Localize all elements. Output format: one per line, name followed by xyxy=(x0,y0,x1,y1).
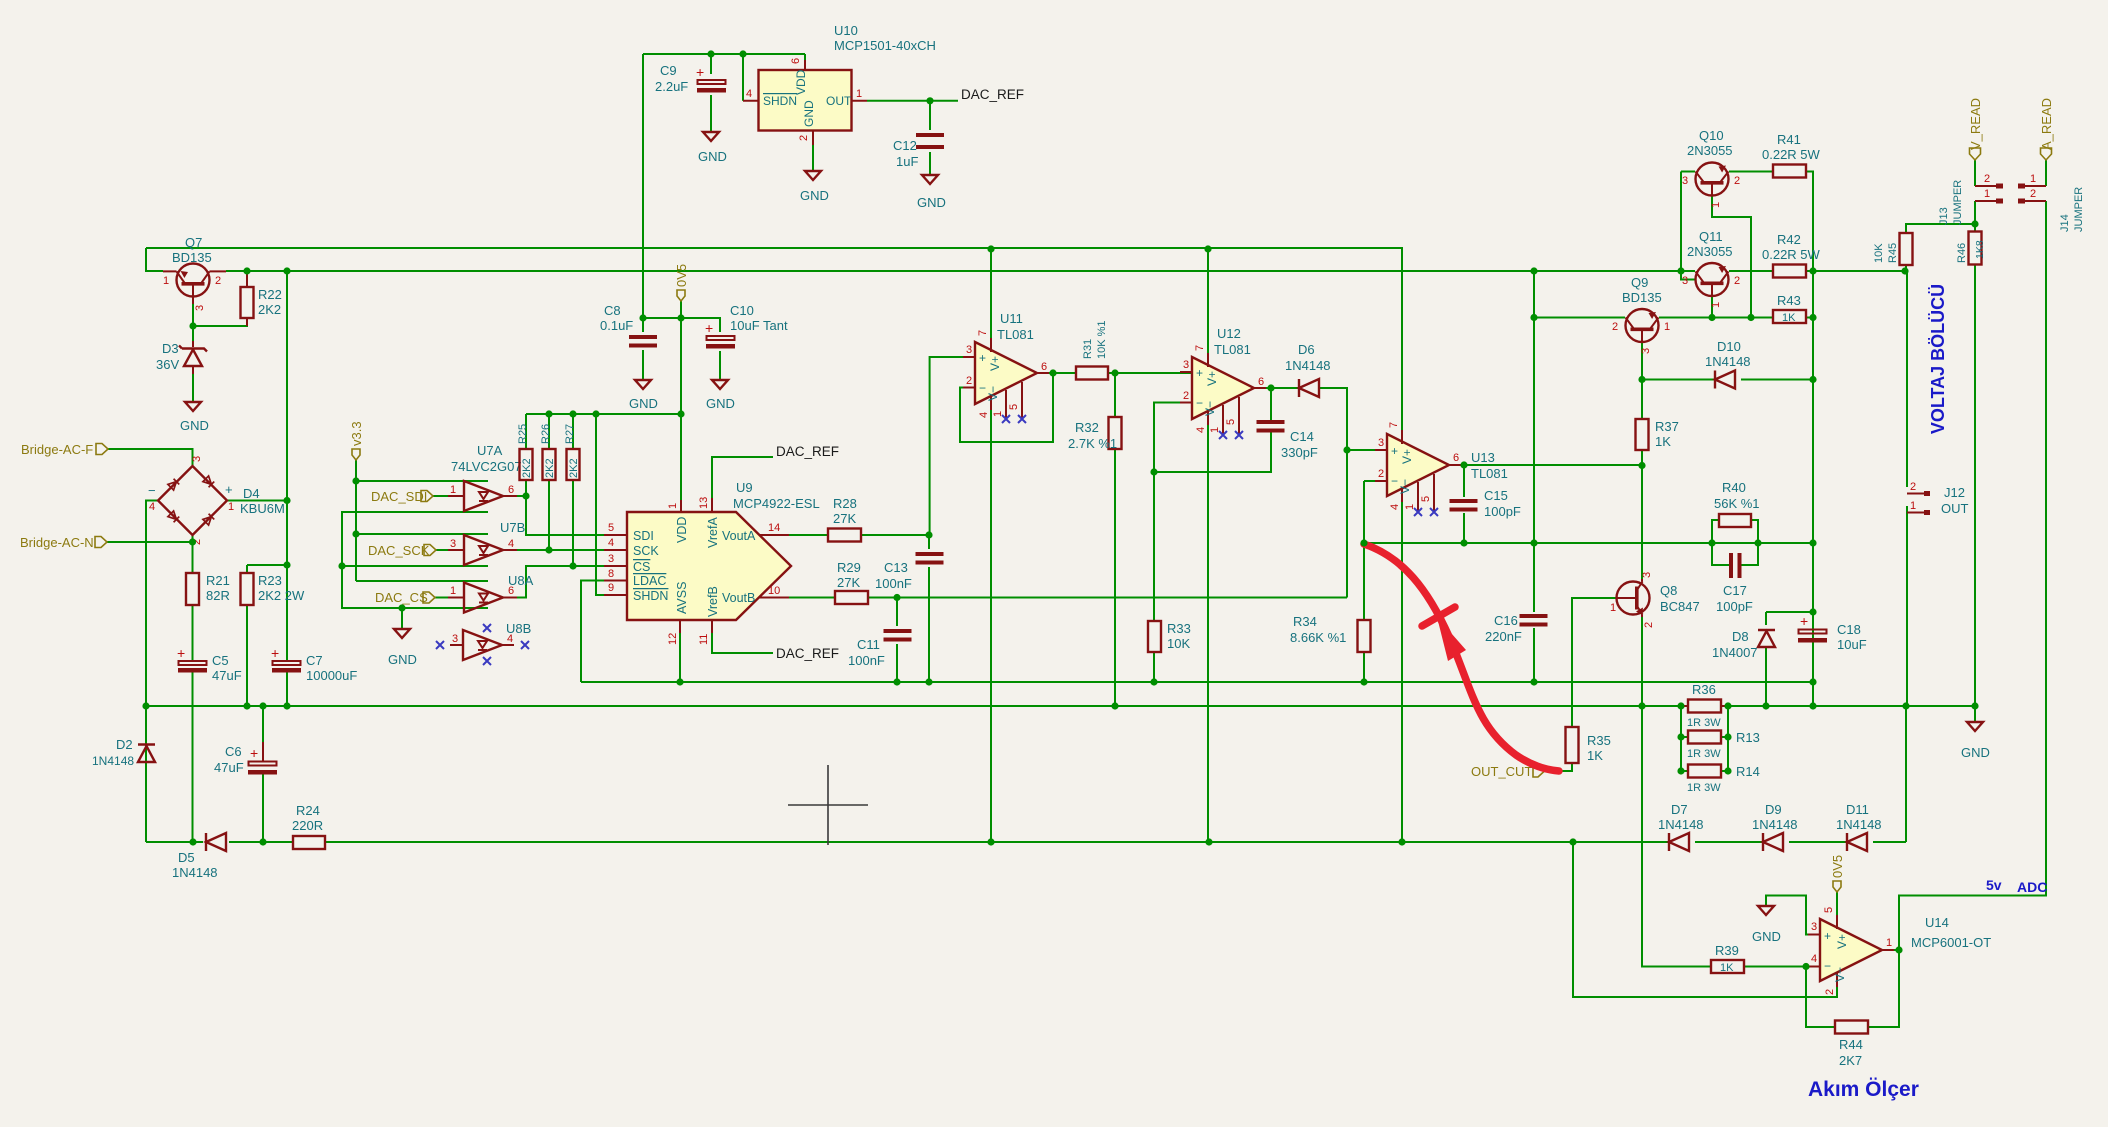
wire U11 pin4 down xyxy=(990,410,992,842)
svg-text:0V5: 0V5 xyxy=(674,264,689,287)
resistor R41 0.22R 5W xyxy=(1762,132,1821,178)
transistor Q7 xyxy=(163,235,226,311)
wire Q10 emitter jog xyxy=(1712,196,1751,318)
svg-text:6: 6 xyxy=(508,585,514,597)
wire U7B vcc rail xyxy=(356,533,488,535)
svg-text:1R 3W: 1R 3W xyxy=(1687,782,1721,794)
svg-text:+: + xyxy=(696,64,704,80)
ground GND (U10 pin2) xyxy=(800,171,829,203)
svg-text:R32: R32 xyxy=(1075,420,1099,435)
svg-text:V_READ: V_READ xyxy=(1968,98,1983,150)
svg-text:6: 6 xyxy=(790,58,802,64)
resistor R46 1K8 xyxy=(1956,232,1986,265)
svg-text:27K: 27K xyxy=(837,575,860,590)
capacitor C11 100nF xyxy=(848,629,912,668)
svg-text:GND: GND xyxy=(388,652,417,667)
ground GND (U14) xyxy=(1752,906,1781,944)
svg-text:+: + xyxy=(271,645,279,661)
wire U11 minus feedback xyxy=(960,373,1053,442)
svg-text:27K: 27K xyxy=(833,511,856,526)
svg-text:1R 3W: 1R 3W xyxy=(1687,717,1721,729)
wire Q9 collector line xyxy=(1659,317,1773,319)
svg-text:8: 8 xyxy=(608,568,614,580)
svg-text:100nF: 100nF xyxy=(848,653,885,668)
svg-text:U11: U11 xyxy=(1000,311,1023,326)
resistor R45 10K xyxy=(1873,233,1913,265)
svg-text:ADC: ADC xyxy=(2017,879,2047,895)
svg-text:−: − xyxy=(1824,959,1831,973)
wire U10 shdn pin drop xyxy=(742,54,744,101)
wire C15 column xyxy=(1463,465,1465,543)
svg-text:C9: C9 xyxy=(660,63,677,78)
wire bridge plus to x287 xyxy=(227,500,287,502)
svg-text:R29: R29 xyxy=(837,560,861,575)
svg-text:VoutB: VoutB xyxy=(722,591,755,605)
svg-text:Q9: Q9 xyxy=(1631,275,1648,290)
wire V_READ stem xyxy=(1974,160,1976,186)
ground GND (C10) xyxy=(706,380,735,411)
svg-text:C13: C13 xyxy=(884,560,908,575)
wire U14 out stub xyxy=(1878,949,1899,951)
svg-text:R36: R36 xyxy=(1692,682,1716,697)
wire V+ top rail y248 xyxy=(146,247,1403,249)
wire Bridge-AC-N xyxy=(107,535,193,573)
svg-text:1: 1 xyxy=(1886,937,1892,949)
svg-text:100nF: 100nF xyxy=(875,576,912,591)
svg-text:3: 3 xyxy=(1641,572,1653,578)
wire Q9 base line xyxy=(1534,317,1625,319)
wire 0V5 rail y318 xyxy=(643,318,720,332)
wire J13 pin1 to R46 xyxy=(1974,201,1976,231)
wire Q8 collector xyxy=(1641,466,1643,580)
svg-text:82R: 82R xyxy=(206,588,230,603)
op-amp U12 TL081 xyxy=(1180,326,1266,439)
svg-text:R14: R14 xyxy=(1736,764,1760,779)
wire R28 to C13 node xyxy=(861,534,929,536)
wire C18 column xyxy=(1812,612,1814,682)
svg-text:100pF: 100pF xyxy=(1716,599,1753,614)
wire SHDN net xyxy=(596,414,604,595)
svg-text:VoutA: VoutA xyxy=(722,529,756,543)
resistor R39 1K xyxy=(1711,943,1744,974)
svg-text:1: 1 xyxy=(1404,504,1416,510)
svg-text:R28: R28 xyxy=(833,496,857,511)
svg-text:4: 4 xyxy=(149,501,155,513)
svg-text:4: 4 xyxy=(746,88,752,100)
svg-text:C6: C6 xyxy=(225,744,242,759)
buffer U7B xyxy=(448,520,525,565)
wire U13 out node xyxy=(1445,464,1464,466)
svg-text:3: 3 xyxy=(194,305,206,311)
svg-text:8.66K %1: 8.66K %1 xyxy=(1290,630,1346,645)
svg-text:3: 3 xyxy=(191,456,203,462)
wire R25 top stub xyxy=(525,414,527,449)
svg-text:Q8: Q8 xyxy=(1660,583,1677,598)
wire VoutA to R28 xyxy=(789,534,828,536)
svg-text:R21: R21 xyxy=(206,573,230,588)
wire U11 pin7 xyxy=(990,249,992,338)
svg-text:1N4148: 1N4148 xyxy=(1836,817,1882,832)
resistor R44 2K7 xyxy=(1835,1021,1868,1069)
svg-text:5: 5 xyxy=(1823,907,1835,913)
buffer U8A xyxy=(448,573,534,613)
svg-text:2: 2 xyxy=(1734,275,1740,287)
svg-text:2K2 2W: 2K2 2W xyxy=(258,588,305,603)
svg-text:D3: D3 xyxy=(162,341,179,356)
svg-text:7: 7 xyxy=(977,330,989,336)
resistor R13 1R 3W xyxy=(1687,730,1760,760)
wire U14 pin5 stub xyxy=(1836,892,1838,917)
power symbol 0V5 (U14) xyxy=(1830,855,1845,892)
svg-text:TL081: TL081 xyxy=(1471,466,1508,481)
resistor R33 10K xyxy=(1148,621,1191,652)
svg-text:C14: C14 xyxy=(1290,429,1314,444)
svg-text:R34: R34 xyxy=(1293,614,1317,629)
svg-text:A_READ: A_READ xyxy=(2039,98,2054,150)
diode D11 1N4148 xyxy=(1836,802,1882,851)
zener diode D3 36V xyxy=(156,326,207,402)
resistor R22 2K2 xyxy=(241,271,282,326)
wire Q7 emitter node xyxy=(193,297,247,341)
svg-text:R37: R37 xyxy=(1655,419,1679,434)
svg-text:D7: D7 xyxy=(1671,802,1688,817)
buffer U7A 74LVC2G07 xyxy=(448,443,522,511)
resistor R23 2K2 2W xyxy=(241,573,305,605)
svg-text:+: + xyxy=(1824,929,1831,943)
wire R32 bottom xyxy=(1114,449,1116,706)
svg-text:BD135: BD135 xyxy=(1622,290,1662,305)
svg-text:GND: GND xyxy=(1752,929,1781,944)
svg-text:3: 3 xyxy=(1640,348,1652,354)
svg-text:C12: C12 xyxy=(893,138,917,153)
wire U14 gnd hook xyxy=(1766,896,1820,935)
wire U13 pin4 down xyxy=(1401,500,1403,842)
svg-text:SCK: SCK xyxy=(633,544,659,558)
svg-text:220nF: 220nF xyxy=(1485,629,1522,644)
svg-text:U13: U13 xyxy=(1471,450,1495,465)
resistor R26 2K2 xyxy=(540,424,556,480)
svg-text:GND: GND xyxy=(802,100,816,127)
resistor R35 1K xyxy=(1566,727,1611,763)
hierarchical label Bridge-AC-F xyxy=(21,442,108,457)
svg-text:SHDN: SHDN xyxy=(633,589,668,603)
svg-text:AVSS: AVSS xyxy=(675,582,689,614)
svg-text:D6: D6 xyxy=(1298,342,1315,357)
svg-text:TL081: TL081 xyxy=(997,327,1034,342)
svg-text:+: + xyxy=(979,351,986,365)
wire Q10 base drop xyxy=(1681,172,1695,272)
svg-text:2: 2 xyxy=(966,375,972,387)
svg-text:2: 2 xyxy=(1984,173,1990,185)
DAC U9 MCP4922-E5L xyxy=(604,480,820,645)
svg-text:−: − xyxy=(979,381,986,395)
svg-text:2K2: 2K2 xyxy=(258,302,281,317)
wire R40 C17 loop right xyxy=(1741,520,1758,565)
svg-text:4: 4 xyxy=(608,537,614,549)
svg-text:R40: R40 xyxy=(1722,480,1746,495)
hierarchical label DAC_SCK xyxy=(368,543,436,558)
svg-text:4: 4 xyxy=(978,412,990,418)
svg-text:+: + xyxy=(250,745,258,761)
svg-text:DAC_SCK: DAC_SCK xyxy=(368,543,430,558)
svg-text:C7: C7 xyxy=(306,653,323,668)
svg-text:R23: R23 xyxy=(258,573,282,588)
resistor R28 27K xyxy=(828,496,861,542)
svg-text:4: 4 xyxy=(1811,953,1817,965)
wire C13 column xyxy=(928,535,930,682)
capacitor C15 100pF xyxy=(1450,488,1521,519)
svg-text:R41: R41 xyxy=(1777,132,1801,147)
svg-text:J12: J12 xyxy=(1944,485,1965,500)
svg-text:GND: GND xyxy=(1961,745,1990,760)
svg-text:Akım Ölçer: Akım Ölçer xyxy=(1808,1078,1919,1101)
wire U10 top rail xyxy=(643,53,805,55)
ground GND (C8) xyxy=(629,380,658,411)
svg-text:6: 6 xyxy=(508,484,514,496)
resistor R24 220R xyxy=(292,803,325,849)
power symbol v3.3 xyxy=(349,421,364,460)
svg-text:C10: C10 xyxy=(730,303,754,318)
wire DAC_REF to VrefA xyxy=(712,457,773,498)
svg-text:LDAC: LDAC xyxy=(633,574,666,588)
jumper J13 xyxy=(1938,173,2046,225)
wire C6 bottom xyxy=(262,706,264,842)
svg-text:R43: R43 xyxy=(1777,293,1801,308)
svg-text:10K: 10K xyxy=(1873,243,1885,263)
wire U8A out to CS xyxy=(517,566,604,598)
svg-text:KBU6M: KBU6M xyxy=(240,501,285,516)
svg-text:U12: U12 xyxy=(1217,326,1241,341)
svg-text:U9: U9 xyxy=(736,480,753,495)
wire VoutB to R29 xyxy=(789,597,835,599)
capacitor C12 1uF xyxy=(893,133,944,169)
resistor R14 1R 3W xyxy=(1687,764,1760,794)
wire pullup rail y414 xyxy=(526,413,681,415)
svg-text:2: 2 xyxy=(1734,175,1740,187)
wire R23 bottom xyxy=(246,605,248,706)
capacitor C16 220nF xyxy=(1485,613,1548,644)
wire Q8 base to R35 xyxy=(1572,598,1617,727)
svg-text:MCP1501-40xCH: MCP1501-40xCH xyxy=(834,38,936,53)
svg-text:BD135: BD135 xyxy=(172,250,212,265)
resistor R43 1K xyxy=(1773,293,1806,324)
svg-text:D4: D4 xyxy=(243,486,260,501)
svg-text:10000uF: 10000uF xyxy=(306,668,357,683)
resistor R40 56K %1 xyxy=(1714,480,1760,527)
wire R31 right node xyxy=(1108,373,1192,417)
resistor R21 82R xyxy=(186,573,230,605)
voltage reference U10 MCP1501-40xCH xyxy=(743,23,936,145)
svg-text:2.7K %1: 2.7K %1 xyxy=(1068,436,1117,451)
svg-text:1R 3W: 1R 3W xyxy=(1687,748,1721,760)
svg-text:GND: GND xyxy=(706,396,735,411)
svg-text:R31: R31 xyxy=(1082,339,1094,359)
resistor R36 1R 3W xyxy=(1681,682,1728,729)
svg-text:Bridge-AC-N: Bridge-AC-N xyxy=(20,535,94,550)
svg-text:DAC_SDI: DAC_SDI xyxy=(371,489,427,504)
svg-text:DAC_REF: DAC_REF xyxy=(776,444,839,459)
svg-text:R35: R35 xyxy=(1587,733,1611,748)
wire C11 column xyxy=(896,598,898,683)
wire Q9 emitter D10 line xyxy=(1642,342,1813,380)
svg-text:56K %1: 56K %1 xyxy=(1714,496,1760,511)
capacitor C13 100nF xyxy=(875,552,944,591)
wire x643 SHDN-U10 down xyxy=(642,54,644,318)
op-amp U14 MCP6001-OT xyxy=(1808,907,1991,995)
svg-text:12: 12 xyxy=(667,633,679,645)
wire U7A vcc rail xyxy=(356,480,488,482)
wire buffer gnd stub xyxy=(401,608,403,629)
svg-text:C11: C11 xyxy=(857,637,880,652)
svg-text:3: 3 xyxy=(1682,275,1688,287)
power symbol 0V5 (DAC vdd) xyxy=(674,264,689,301)
svg-text:BC847: BC847 xyxy=(1660,599,1700,614)
hierarchical label V_READ xyxy=(1968,98,1983,160)
svg-text:7: 7 xyxy=(1388,422,1400,428)
svg-text:CS: CS xyxy=(633,560,650,574)
op-amp U11 TL081 xyxy=(963,311,1049,423)
wire Q8 emitter xyxy=(1641,617,1643,706)
wire R29 right xyxy=(868,597,897,599)
svg-text:2: 2 xyxy=(1910,481,1916,493)
wire U13 node y543 xyxy=(1364,542,1813,544)
svg-text:74LVC2G07: 74LVC2G07 xyxy=(451,459,522,474)
svg-text:4: 4 xyxy=(507,633,513,645)
wire DAC_CS in xyxy=(435,597,448,599)
capacitor C5 47uF xyxy=(177,645,242,683)
wire D8 top link xyxy=(1766,612,1813,625)
svg-text:TL081: TL081 xyxy=(1214,342,1251,357)
wire Q10 collector to R41 xyxy=(1729,171,1773,173)
wire DAC_SDI in xyxy=(433,495,448,497)
svg-text:1K8: 1K8 xyxy=(1974,240,1986,259)
wire R26 stubs xyxy=(548,414,550,550)
wire J12 pin1 down xyxy=(1906,506,1908,706)
svg-text:5: 5 xyxy=(608,522,614,534)
wire R39 loop xyxy=(1642,706,1711,967)
svg-text:7: 7 xyxy=(1194,345,1206,351)
wire x1534 rail xyxy=(1533,271,1535,682)
svg-text:1: 1 xyxy=(163,275,169,287)
svg-text:2K2: 2K2 xyxy=(521,458,533,478)
svg-text:R42: R42 xyxy=(1777,232,1801,247)
svg-text:U14: U14 xyxy=(1925,915,1949,930)
wire left vertical x146 bridge-minus down to y842 xyxy=(146,501,158,843)
svg-text:220R: 220R xyxy=(292,818,323,833)
svg-text:D9: D9 xyxy=(1765,802,1782,817)
wire U10 gnd stub xyxy=(812,133,814,171)
wire GND bus y706 xyxy=(146,705,1975,707)
crosshair mark xyxy=(788,765,868,845)
svg-text:2: 2 xyxy=(1824,989,1836,995)
svg-text:VDD: VDD xyxy=(675,517,689,543)
svg-text:+: + xyxy=(1196,366,1203,380)
svg-text:R22: R22 xyxy=(258,287,282,302)
svg-text:3: 3 xyxy=(452,633,458,645)
svg-text:GND: GND xyxy=(629,396,658,411)
svg-text:3: 3 xyxy=(608,553,614,565)
wire R33 bottom xyxy=(1153,652,1155,682)
svg-text:V+: V+ xyxy=(988,356,1002,371)
jumper J14 xyxy=(1975,187,2085,232)
transistor Q8 BC847 xyxy=(1610,572,1700,628)
resistor R25 2K2 xyxy=(517,424,533,480)
wire R46 bottom xyxy=(1974,265,1976,706)
blue annotation 5v ADC xyxy=(1986,877,2047,895)
wire GND stub right xyxy=(1974,706,1976,722)
svg-text:DAC_CS: DAC_CS xyxy=(375,590,428,605)
svg-text:4: 4 xyxy=(508,538,514,550)
hierarchical label A_READ xyxy=(2039,98,2054,160)
svg-text:R33: R33 xyxy=(1167,621,1191,636)
svg-text:VDD: VDD xyxy=(794,69,808,95)
capacitor C14 330pF xyxy=(1257,420,1318,460)
svg-text:SDI: SDI xyxy=(633,529,654,543)
wire J12 pin2 up xyxy=(1906,271,1908,487)
wire U11 plus input riser xyxy=(930,357,975,535)
wire C10 bottom stub xyxy=(719,351,721,380)
svg-text:JUMPER: JUMPER xyxy=(2073,187,2085,232)
diode D7 1N4148 xyxy=(1658,802,1704,851)
svg-text:2N3055: 2N3055 xyxy=(1687,143,1733,158)
wire U13 minus stub xyxy=(1364,481,1387,543)
svg-text:1N4148: 1N4148 xyxy=(1285,358,1331,373)
wire Q11 base stub xyxy=(1681,271,1695,280)
wire LDAC net xyxy=(581,581,604,683)
svg-text:3: 3 xyxy=(1811,921,1817,933)
capacitor C6 47uF xyxy=(214,742,277,775)
svg-text:R24: R24 xyxy=(296,803,320,818)
svg-text:V−: V− xyxy=(1398,479,1412,494)
capacitor C7 10000uF xyxy=(271,645,357,683)
capacitor C8 0.1uF xyxy=(600,303,657,348)
wire U7B out to SCK xyxy=(517,549,604,551)
svg-text:1: 1 xyxy=(1664,321,1670,333)
svg-text:Q10: Q10 xyxy=(1699,128,1724,143)
svg-text:+: + xyxy=(705,320,713,336)
svg-text:2: 2 xyxy=(1612,321,1618,333)
svg-text:1: 1 xyxy=(228,501,234,513)
svg-text:1N4148: 1N4148 xyxy=(1752,817,1798,832)
wire R35 to OUT_CUT xyxy=(1544,763,1572,771)
svg-text:MCP4922-ESL: MCP4922-ESL xyxy=(733,496,820,511)
svg-text:0.22R 5W: 0.22R 5W xyxy=(1762,147,1821,162)
wire R43 right xyxy=(1806,317,1813,319)
diode D6 1N4148 xyxy=(1285,342,1331,397)
wire J14 pin2 down ADC xyxy=(1899,201,2046,950)
wire 0V5 stem xyxy=(680,301,682,512)
bridge rectifier D4 KBU6M xyxy=(148,456,285,545)
buffer U8B (unused) xyxy=(436,621,531,665)
svg-text:V+: V+ xyxy=(1400,449,1414,464)
wire Q11 emitter xyxy=(1711,296,1713,318)
svg-text:Q11: Q11 xyxy=(1699,229,1723,244)
wire R21 C5 column xyxy=(192,605,194,842)
ground GND (C9) xyxy=(698,132,727,164)
svg-text:10K: 10K xyxy=(1167,636,1190,651)
svg-text:VOLTAJ BÖLÜCÜ: VOLTAJ BÖLÜCÜ xyxy=(1928,284,1948,434)
wire U7A out to SDI xyxy=(517,496,604,535)
svg-text:DAC_REF: DAC_REF xyxy=(961,87,1024,102)
svg-text:Q7: Q7 xyxy=(185,235,202,250)
wire U11 out to R31 xyxy=(1049,372,1076,374)
svg-text:1: 1 xyxy=(1610,602,1616,614)
wire R27 stubs xyxy=(572,414,574,566)
hierarchical label Bridge-AC-N xyxy=(20,535,107,550)
svg-text:1: 1 xyxy=(1710,302,1722,308)
svg-text:GND: GND xyxy=(917,195,946,210)
wire R13 R14 parallel risers xyxy=(1681,706,1728,771)
